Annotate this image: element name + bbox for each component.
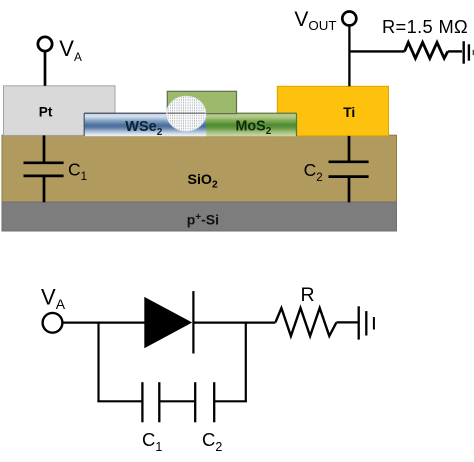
svg-text:R=1.5 MΩ: R=1.5 MΩ <box>382 16 468 37</box>
svg-text:VOUT: VOUT <box>294 8 336 33</box>
svg-text:VA: VA <box>59 36 82 64</box>
svg-text:C2: C2 <box>202 429 222 454</box>
svg-text:VA: VA <box>41 284 66 312</box>
svg-text:p+-Si: p+-Si <box>187 212 219 228</box>
svg-text:Pt: Pt <box>39 105 53 120</box>
svg-text:Ti: Ti <box>343 105 355 120</box>
svg-text:C1: C1 <box>142 429 162 454</box>
svg-text:R: R <box>301 284 315 306</box>
